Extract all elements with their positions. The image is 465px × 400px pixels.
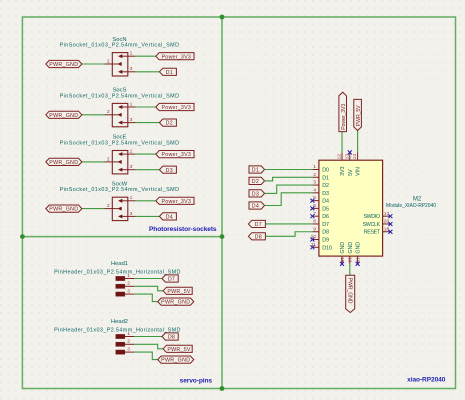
- svg-text:3: 3: [127, 347, 130, 353]
- connector SocS pin 3 contact: [118, 121, 122, 124]
- svg-text:GND: GND: [340, 242, 346, 254]
- svg-text:PWR_5V: PWR_5V: [167, 347, 190, 353]
- junction middle divider: [220, 234, 225, 239]
- svg-text:D5: D5: [322, 206, 329, 212]
- svg-text:12: 12: [337, 154, 343, 160]
- svg-text:6: 6: [313, 203, 316, 209]
- global label D8 at module: [248, 233, 265, 240]
- global label PWR_GND at SocS: [46, 111, 82, 118]
- svg-text:D10: D10: [322, 245, 332, 251]
- svg-text:PWR_GND: PWR_GND: [49, 160, 78, 166]
- svg-text:M2: M2: [413, 197, 422, 203]
- global label PWR_5V at Head2: [163, 345, 192, 352]
- module M2 pin 6 D5: [312, 207, 319, 209]
- no-connect flag 5V pin: [348, 150, 352, 154]
- connector SocW pin 2 contact: [118, 207, 122, 210]
- connector SocS pin 1 contact: [118, 105, 122, 108]
- connector Head2 pin 1 pad: [116, 334, 125, 338]
- no-connect flag RESET: [388, 230, 392, 234]
- connector SocE body: [112, 151, 128, 174]
- wire SocE pin 2 to PWR_GND: [82, 161, 105, 163]
- wire SocW pin 3 to D4: [136, 215, 160, 217]
- svg-text:1: 1: [127, 273, 130, 279]
- global label D4 at module: [249, 202, 265, 209]
- module M2 bottom pin 19 GND: [357, 256, 359, 264]
- connector Head1 pin 1 pad: [116, 276, 125, 280]
- wire SocN pin 3 to D1: [136, 71, 160, 73]
- global label D1 at SocN: [159, 68, 176, 75]
- module M2 pin 9 D8: [312, 231, 319, 233]
- svg-text:13: 13: [344, 154, 350, 160]
- svg-text:D4: D4: [322, 199, 329, 205]
- connector Head2 pin 2 pad: [116, 342, 125, 346]
- no-connect flag pin 5: [310, 199, 314, 203]
- global label D2 at SocS: [159, 119, 176, 126]
- svg-text:3: 3: [313, 180, 316, 186]
- svg-text:1: 1: [130, 149, 133, 155]
- svg-text:D1: D1: [166, 70, 173, 76]
- divider line between Photoresistor-sockets and servo-pins: [22, 236, 222, 238]
- no-connect flag pin 6: [310, 206, 314, 210]
- svg-text:1: 1: [130, 101, 133, 107]
- svg-text:PWR_GND: PWR_GND: [161, 358, 190, 364]
- svg-text:GND: GND: [348, 242, 354, 254]
- svg-text:2: 2: [313, 172, 316, 178]
- global label D1 at module: [249, 166, 265, 173]
- svg-text:D0: D0: [322, 168, 329, 174]
- wire D4 to module pin 4: [265, 193, 313, 206]
- svg-text:PWR_GND: PWR_GND: [161, 300, 190, 306]
- global label D7 at module: [248, 220, 265, 227]
- junction left divider: [20, 234, 25, 239]
- global label Power_3V3 at SocN: [156, 53, 194, 60]
- svg-text:3: 3: [130, 66, 133, 72]
- svg-text:3: 3: [130, 211, 133, 217]
- wire Head1 pin 2 to PWR_5V: [134, 286, 163, 291]
- global label D7 at Head1: [162, 275, 178, 282]
- svg-text:xiao-RP2040: xiao-RP2040: [407, 376, 446, 383]
- connector Head1 pin 3 pad: [116, 292, 125, 296]
- svg-text:1: 1: [130, 195, 133, 201]
- svg-text:D1: D1: [322, 175, 329, 181]
- svg-text:3: 3: [130, 117, 133, 123]
- wire D3 to module pin 3: [265, 185, 313, 193]
- svg-text:D3: D3: [166, 168, 173, 174]
- global label PWR_GND at Head2: [158, 356, 194, 363]
- svg-text:PWR_5V: PWR_5V: [167, 289, 190, 295]
- svg-text:20: 20: [384, 219, 390, 225]
- svg-text:Power_3V3: Power_3V3: [161, 199, 191, 205]
- no-connect flag pin 10: [310, 238, 314, 242]
- connector SocS body: [112, 103, 128, 126]
- global label D2 at module: [249, 177, 265, 184]
- connector Head1 pin 2 pad: [116, 284, 125, 288]
- svg-text:9: 9: [313, 226, 316, 232]
- svg-text:8: 8: [313, 219, 316, 225]
- svg-text:2: 2: [107, 58, 110, 64]
- no-connect flag pin 11: [310, 245, 314, 249]
- global label Power_3V3 at module (vertical): [339, 92, 347, 131]
- wire D7 to module pin 8: [265, 223, 312, 225]
- svg-text:5V: 5V: [348, 169, 354, 176]
- svg-text:GND: GND: [356, 242, 362, 254]
- global label D3 at SocE: [159, 166, 176, 173]
- module M2 pin 10 D9: [312, 239, 319, 241]
- connector SocE pin 3 contact: [118, 168, 122, 171]
- wire SocS pin 3 to D2: [136, 122, 160, 124]
- wire D1 to module pin 1: [265, 169, 313, 171]
- svg-text:SWCLK: SWCLK: [363, 222, 381, 228]
- module M2 top pin 14 VIN: [357, 152, 359, 160]
- connector SocE pin 1 contact: [118, 152, 122, 155]
- module M2 pin 5 D4: [312, 200, 319, 202]
- wire Head2 pin 3 to PWR_GND: [134, 352, 157, 360]
- svg-text:D7: D7: [168, 277, 175, 283]
- svg-text:PinSocket_01x03_P2.54mm_Vertic: PinSocket_01x03_P2.54mm_Vertical_SMD: [60, 141, 180, 147]
- svg-text:14: 14: [352, 154, 358, 160]
- svg-text:2: 2: [107, 109, 110, 115]
- svg-text:1: 1: [130, 51, 133, 57]
- global label D4 at SocW: [159, 213, 176, 220]
- connector SocS pin 2 contact: [118, 113, 122, 116]
- svg-text:RESET: RESET: [364, 230, 381, 236]
- svg-text:D8: D8: [255, 234, 262, 240]
- wire SocS pin 2 to PWR_GND: [82, 114, 105, 116]
- svg-text:16: 16: [347, 257, 353, 263]
- wire SocN pin 1 to Power_3V3: [136, 55, 156, 57]
- svg-text:D4: D4: [252, 204, 259, 210]
- svg-text:Head2: Head2: [111, 319, 128, 325]
- svg-text:D6: D6: [322, 214, 329, 220]
- svg-text:3V3: 3V3: [340, 167, 346, 176]
- svg-text:D8: D8: [322, 230, 329, 236]
- svg-text:D2: D2: [252, 179, 259, 185]
- svg-text:PinHeader_01x03_P2.54mm_Horizo: PinHeader_01x03_P2.54mm_Horizontal_SMD: [54, 327, 181, 333]
- no-connect flag SWDIO: [388, 214, 392, 218]
- connector SocN pin 3 contact: [118, 70, 122, 73]
- module M2 pin 1 D0: [312, 169, 319, 171]
- svg-text:D2: D2: [322, 183, 329, 189]
- wire SocW pin 2 to PWR_GND: [82, 208, 105, 210]
- svg-text:VIN: VIN: [356, 167, 362, 176]
- module M2 right pin 20 SWCLK: [383, 223, 391, 225]
- global label PWR_GND at SocW: [46, 205, 82, 212]
- svg-text:PWR_GND: PWR_GND: [49, 113, 78, 119]
- wire SocE pin 3 to D3: [136, 169, 160, 171]
- svg-text:PWR_GND: PWR_GND: [49, 62, 78, 68]
- svg-text:Power_3V3: Power_3V3: [161, 105, 191, 111]
- svg-text:1: 1: [313, 164, 316, 170]
- svg-text:servo-pins: servo-pins: [180, 377, 213, 384]
- wire Head1 pin 3 to PWR_GND: [134, 294, 157, 302]
- module M2 top pin 13 5V: [349, 152, 351, 160]
- svg-text:PinSocket_01x03_P2.54mm_Vertic: PinSocket_01x03_P2.54mm_Vertical_SMD: [60, 93, 180, 99]
- svg-text:2: 2: [127, 339, 130, 345]
- connector SocN pin 2 contact: [118, 62, 122, 65]
- svg-text:D3: D3: [252, 192, 259, 198]
- no-connect flag GND pin 15: [340, 262, 344, 266]
- junction bottom: [220, 386, 225, 391]
- connector SocW body: [112, 197, 128, 220]
- global label Power_3V3 at SocS: [156, 103, 194, 110]
- svg-text:D4: D4: [166, 215, 173, 221]
- global label PWR_5V at module (vertical): [354, 99, 362, 130]
- svg-text:SWDIO: SWDIO: [363, 214, 380, 220]
- svg-text:5: 5: [313, 195, 316, 201]
- global label PWR_GND at Head1: [158, 298, 194, 305]
- connector SocW pin 3 contact: [118, 215, 122, 218]
- wire GND pin to PWR_GND: [349, 264, 351, 275]
- svg-text:D9: D9: [322, 238, 329, 244]
- wire D8 to module pin 9: [265, 232, 312, 237]
- global label PWR_GND at SocN: [46, 60, 82, 67]
- wire Power_3V3 to module 3V3 pin: [341, 132, 343, 153]
- svg-text:2: 2: [127, 281, 130, 287]
- divider line between left and right sections: [221, 17, 223, 389]
- svg-text:PinSocket_01x03_P2.54mm_Vertic: PinSocket_01x03_P2.54mm_Vertical_SMD: [60, 43, 180, 49]
- wire SocN pin 2 to PWR_GND: [82, 63, 105, 65]
- global label Power_3V3 at SocE: [156, 151, 194, 158]
- global label PWR_GND at SocE: [46, 158, 82, 165]
- module M2 pin 8 D7: [312, 223, 319, 225]
- connector SocW pin 1 contact: [118, 199, 122, 202]
- svg-text:3: 3: [127, 289, 130, 295]
- module M2 bottom pin 15 GND: [341, 256, 343, 264]
- junction top: [220, 15, 225, 20]
- module M2 pin 7 D6: [312, 215, 319, 217]
- svg-text:Head1: Head1: [111, 261, 128, 267]
- svg-text:2: 2: [107, 156, 110, 162]
- svg-text:D8: D8: [168, 335, 175, 341]
- svg-text:Photoresistor-sockets: Photoresistor-sockets: [149, 226, 217, 233]
- no-connect flag SWCLK: [388, 222, 392, 226]
- module M2 top pin 12 3V3: [341, 152, 343, 160]
- svg-text:Power_3V3: Power_3V3: [341, 104, 347, 130]
- wire SocS pin 1 to Power_3V3: [136, 106, 156, 108]
- wire PWR_5V to module VIN pin: [357, 131, 359, 153]
- global label D8 at Head2: [162, 333, 178, 340]
- svg-text:Module_XIAO-RP2040: Module_XIAO-RP2040: [386, 203, 436, 209]
- svg-text:D3: D3: [322, 191, 329, 197]
- module M2 pin 2 D1: [312, 176, 319, 178]
- module M2 pin 11 D10: [312, 246, 319, 248]
- wire SocW pin 1 to Power_3V3: [136, 200, 156, 202]
- module M2 right pin 17 SWDIO: [383, 215, 391, 217]
- svg-text:7: 7: [313, 211, 316, 217]
- svg-text:D7: D7: [255, 222, 262, 228]
- wire Head2 pin 1 to D8: [134, 336, 162, 338]
- module M2 right pin 18 RESET: [383, 231, 391, 233]
- svg-text:D2: D2: [166, 121, 173, 127]
- connector SocN pin 1 contact: [118, 55, 122, 58]
- module M2 bottom pin 16 GND: [349, 256, 351, 264]
- svg-text:1: 1: [127, 331, 130, 337]
- svg-text:PWR_GND: PWR_GND: [346, 278, 352, 304]
- svg-text:PWR_5V: PWR_5V: [356, 105, 362, 126]
- wire Head2 pin 2 to PWR_5V: [134, 344, 163, 349]
- module U M2 body: [319, 160, 383, 256]
- global label PWR_GND at module (vertical): [346, 275, 355, 312]
- no-connect flag GND pin 19: [356, 262, 360, 266]
- connector SocE pin 2 contact: [118, 160, 122, 163]
- wire D2 to module pin 2: [265, 177, 313, 181]
- module M2 pin 4 D3: [312, 192, 319, 194]
- svg-text:PinHeader_01x03_P2.54mm_Horizo: PinHeader_01x03_P2.54mm_Horizontal_SMD: [54, 269, 181, 275]
- connector SocN body: [112, 53, 128, 76]
- wire SocE pin 1 to Power_3V3: [136, 153, 156, 155]
- svg-text:17: 17: [384, 211, 390, 217]
- global label Power_3V3 at SocW: [156, 197, 194, 204]
- global label D3 at module: [249, 190, 265, 197]
- svg-text:3: 3: [130, 164, 133, 170]
- module M2 pin 3 D2: [312, 184, 319, 186]
- svg-text:PWR_GND: PWR_GND: [49, 207, 78, 213]
- svg-text:Power_3V3: Power_3V3: [161, 54, 191, 60]
- no-connect flag pin 7: [310, 214, 314, 218]
- svg-text:4: 4: [313, 187, 316, 193]
- svg-text:D1: D1: [252, 168, 259, 174]
- global label PWR_5V at Head1: [163, 287, 192, 294]
- svg-text:Power_3V3: Power_3V3: [161, 152, 191, 158]
- svg-text:D7: D7: [322, 222, 329, 228]
- svg-text:PinSocket_01x03_P2.54mm_Vertic: PinSocket_01x03_P2.54mm_Vertical_SMD: [60, 187, 180, 193]
- connector Head2 pin 3 pad: [116, 350, 125, 354]
- wire Head1 pin 1 to D7: [134, 278, 162, 280]
- svg-text:2: 2: [107, 203, 110, 209]
- svg-text:18: 18: [384, 226, 390, 232]
